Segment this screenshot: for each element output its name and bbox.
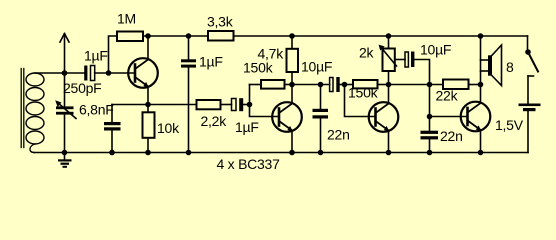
- svg-text:1µF: 1µF: [235, 119, 259, 135]
- wire 150k to collector node: [285, 84, 293, 86]
- svg-text:250pF: 250pF: [63, 80, 101, 96]
- node R4 rail: [289, 33, 295, 39]
- svg-text:22n: 22n: [327, 127, 350, 143]
- svg-text:150k: 150k: [348, 85, 379, 101]
- node Q2 emitter rail: [289, 150, 295, 156]
- node 22n rail stage4: [427, 150, 433, 156]
- node 22n tap: [318, 82, 324, 88]
- svg-text:1µF: 1µF: [84, 48, 108, 64]
- wire 1M left leg: [109, 36, 118, 73]
- wire Q2 base vertical: [250, 85, 280, 117]
- svg-text:1µF: 1µF: [199, 54, 223, 70]
- resistor R4 4,7k: [287, 36, 299, 85]
- resistor R5 2,2k: [197, 100, 221, 109]
- svg-text:10µF: 10µF: [301, 59, 332, 75]
- wire 150k to Q3 collector node: [378, 84, 389, 86]
- potentiometer R8 2k: [379, 36, 405, 85]
- node Q2 collector: [289, 82, 295, 88]
- svg-text:3,3k: 3,3k: [207, 14, 234, 30]
- top rail: [143, 35, 208, 37]
- svg-text:150k: 150k: [243, 60, 274, 76]
- node Q2 base: [247, 102, 253, 108]
- wire Q4 base horizontal: [430, 116, 468, 118]
- resistor R6 150k: [261, 80, 285, 89]
- node antenna junction: [62, 70, 68, 76]
- node base Q1: [106, 70, 112, 76]
- wire base row left: [35, 72, 85, 74]
- svg-text:10µF: 10µF: [420, 42, 451, 58]
- wire collector row stage3 to 22k: [389, 84, 444, 86]
- capacitor C5 1uF electrolytic: [232, 98, 250, 111]
- svg-text:2,2k: 2,2k: [201, 113, 228, 129]
- switch S1: [525, 36, 538, 104]
- node pot rail: [386, 33, 392, 39]
- node Q4 base: [427, 114, 433, 120]
- transformer L1 coil: [26, 73, 44, 153]
- variable capacitor C1 250pF: [55, 73, 76, 153]
- node speaker rail: [478, 33, 484, 39]
- node C3 rail bottom: [186, 150, 192, 156]
- capacitor C2 1uF (input coupling): [84, 66, 134, 81]
- node ground junction: [62, 150, 68, 156]
- resistor R7 150k stage3: [353, 80, 378, 88]
- svg-text:4 x BC337: 4 x BC337: [217, 156, 281, 172]
- wire Q4 base vertical: [429, 85, 431, 132]
- resistor R3 10k: [143, 105, 155, 153]
- emitter row wire: [112, 104, 197, 106]
- antenna: [60, 34, 69, 74]
- resistor R9 22k: [443, 80, 469, 90]
- node Q3 emitter rail: [386, 150, 392, 156]
- capacitor C6 22n: [313, 85, 329, 153]
- svg-text:22k: 22k: [436, 88, 459, 104]
- node Q3 base: [342, 82, 348, 88]
- node 10k rail: [145, 150, 151, 156]
- node Q1 emitter: [145, 102, 151, 108]
- node Q4 collector: [478, 82, 484, 88]
- speaker LS 8ohm: [481, 45, 502, 86]
- node 22n rail: [318, 150, 324, 156]
- resistor R1 1M: [117, 32, 143, 42]
- wire 2,2k to C5: [221, 104, 232, 106]
- wire feedback to 150k: [250, 84, 262, 86]
- capacitor C7 10uF electrolytic: [330, 77, 353, 92]
- transistor Q2: [272, 85, 302, 153]
- node C3 rail: [186, 33, 192, 39]
- node Q1 collector rail: [145, 33, 151, 39]
- capacitor C4 6,8nF: [104, 105, 121, 153]
- wire 22k to collector node Q4: [469, 84, 481, 86]
- transistor Q3: [369, 85, 399, 153]
- battery BT1: [519, 104, 541, 153]
- svg-text:8: 8: [506, 59, 514, 75]
- svg-text:6,8nF: 6,8nF: [79, 102, 114, 118]
- wire collector row to C7: [292, 84, 330, 86]
- svg-text:2k: 2k: [359, 45, 375, 61]
- svg-text:22n: 22n: [440, 128, 463, 144]
- capacitor C8 10uF output coupling: [405, 52, 430, 85]
- svg-text:1M: 1M: [117, 11, 136, 27]
- transformer L1 core: [21, 69, 24, 148]
- transistor Q4: [461, 36, 491, 153]
- node Q4 emitter rail: [478, 150, 484, 156]
- svg-text:10k: 10k: [157, 120, 180, 136]
- node C8 junction: [427, 82, 433, 88]
- capacitor C3 1uF (bypass): [181, 36, 196, 153]
- transistor Q1: [128, 36, 158, 105]
- node 6,8nF rail: [109, 150, 115, 156]
- ground: [58, 153, 72, 168]
- svg-text:1,5V: 1,5V: [495, 117, 524, 133]
- bottom rail: [34, 152, 528, 154]
- svg-text:4,7k: 4,7k: [258, 46, 285, 62]
- node Q3 collector: [386, 82, 392, 88]
- resistor R2 3,3k: [208, 31, 234, 41]
- wire Q3 base vertical: [345, 85, 376, 117]
- capacitor C9 22n: [421, 131, 439, 153]
